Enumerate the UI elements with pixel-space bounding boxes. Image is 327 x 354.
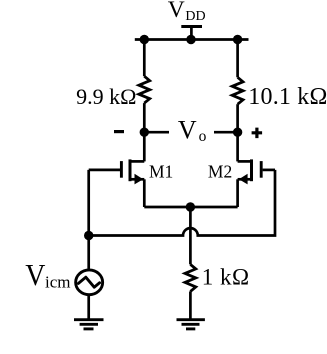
svg-text:V: V	[25, 259, 45, 293]
wire Vo left stub	[144, 131, 169, 134]
wire Vo right stub	[214, 131, 238, 134]
M1 drain lead	[130, 160, 144, 163]
wire rail to R1	[143, 40, 146, 77]
junction gate bias node	[84, 231, 93, 240]
wire M2 source down	[236, 179, 239, 207]
junction Vo-right node	[233, 128, 242, 137]
wire bias node to Vicm source	[87, 236, 90, 272]
wire Vicm source to ground	[87, 294, 90, 319]
node Vo label	[178, 115, 207, 145]
M2 gate bar	[260, 161, 263, 178]
svg-text:M2: M2	[208, 161, 232, 181]
M2 gate lead	[263, 169, 275, 172]
wire top rail	[135, 38, 249, 41]
M1 source arrow	[135, 174, 144, 185]
source Vicm AC circle	[76, 270, 103, 295]
wire tail from common node	[189, 207, 192, 264]
wire gate bias with hop over tail	[89, 170, 275, 236]
wire M1 gate column down	[87, 170, 90, 236]
M2 drain lead	[238, 160, 252, 163]
wire Rtail to ground	[189, 291, 192, 319]
source Vicm label	[25, 259, 70, 293]
resistor Rtail 1k zigzag	[185, 264, 196, 291]
svg-text:1 kΩ: 1 kΩ	[202, 264, 250, 289]
M2 source lead	[238, 178, 252, 181]
M1 source lead	[130, 178, 144, 181]
M2 channel bar	[250, 159, 253, 181]
junction rail-left	[140, 35, 149, 44]
resistor R1 9.9k zigzag	[139, 76, 150, 103]
svg-text:icm: icm	[45, 273, 71, 292]
M2 source arrow	[239, 174, 248, 185]
svg-text:o: o	[199, 128, 207, 145]
svg-text:10.1 kΩ: 10.1 kΩ	[248, 84, 327, 110]
wire M1 source down	[143, 179, 146, 207]
svg-text:M1: M1	[149, 161, 173, 181]
svg-text:9.9 kΩ: 9.9 kΩ	[76, 84, 136, 109]
transistor M2	[238, 159, 275, 184]
svg-text:V: V	[178, 115, 197, 144]
svg-text:V: V	[168, 0, 185, 23]
M1 gate bar	[120, 161, 123, 178]
ground Vicm	[74, 320, 104, 329]
wire VDD terminal to rail	[190, 27, 193, 40]
M1 channel bar	[129, 159, 132, 181]
source Vicm sine wave	[78, 277, 99, 287]
VDD supply terminal bar	[181, 25, 202, 28]
wire R1 to Vo node	[143, 103, 146, 161]
transistor M1	[89, 159, 145, 184]
svg-text:DD: DD	[185, 9, 205, 24]
junction Vo-left node	[140, 128, 149, 137]
ground tail	[177, 320, 205, 329]
wire R2 to Vo node	[236, 104, 239, 161]
junction rail-right	[233, 35, 242, 44]
wire rail to R2	[236, 40, 239, 78]
plus sign output polarity	[252, 128, 263, 139]
minus sign output polarity	[114, 130, 124, 133]
M1 gate lead	[89, 169, 120, 172]
node VDD label	[168, 0, 206, 24]
junction common source node	[186, 202, 195, 211]
wire common source rail	[144, 206, 237, 209]
resistor R2 10.1k zigzag	[232, 77, 243, 104]
junction rail-center	[186, 35, 195, 44]
